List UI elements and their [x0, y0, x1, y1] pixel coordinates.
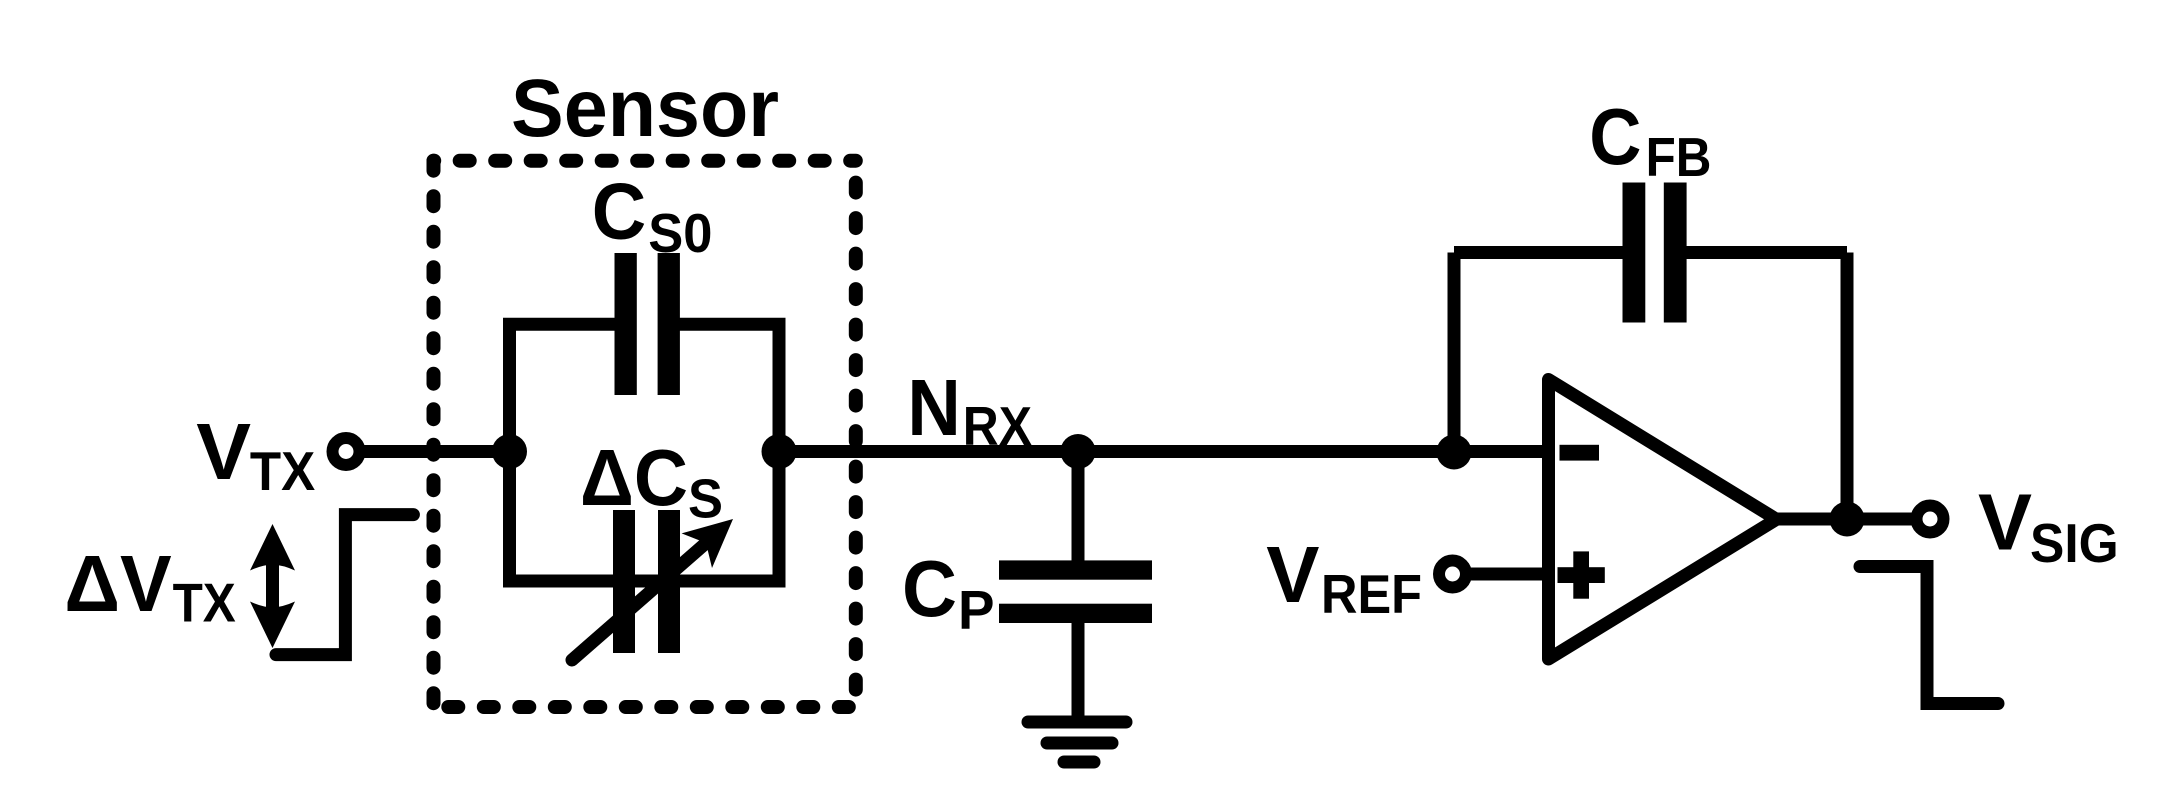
svg-text:N: N: [907, 363, 960, 452]
svg-text:C: C: [592, 166, 647, 255]
terminal VTX: [333, 438, 360, 465]
svg-text:TX: TX: [250, 440, 316, 502]
capacitor CFB: [1623, 183, 1687, 323]
svg-text:V: V: [1978, 478, 2032, 567]
svg-text:V: V: [196, 407, 251, 496]
arrow of variable capacitor: [572, 519, 733, 660]
svg-text:RX: RX: [963, 395, 1032, 457]
svg-text:ΔC: ΔC: [580, 433, 688, 522]
svg-text:FB: FB: [1646, 126, 1712, 188]
capacitor dCS variable: [613, 510, 680, 653]
svg-text:REF: REF: [1321, 563, 1422, 625]
capacitor CS0: [615, 253, 680, 395]
svg-text:S: S: [688, 468, 723, 530]
wire feedback right vertical: [1841, 253, 1854, 520]
waveform rising step dVTX: [276, 515, 413, 655]
node sensor left junction: [492, 434, 527, 469]
wire feedback left vertical: [1448, 253, 1461, 453]
node NRX junction: [1061, 434, 1096, 469]
wire sensor loop right vertical: [773, 324, 786, 581]
ground: [1028, 722, 1126, 762]
svg-text:SIG: SIG: [2030, 512, 2119, 574]
wire VREF to non-inverting input: [1470, 568, 1545, 581]
node sensor right junction: [762, 434, 797, 469]
terminal VREF: [1439, 561, 1466, 588]
wire sensor loop left vertical: [503, 324, 516, 581]
wire CP lower lead: [1072, 620, 1085, 718]
wire feedback top-right: [1686, 246, 1847, 259]
wire sensor loop top-right lead: [679, 318, 786, 331]
wire op-amp output: [1768, 513, 1912, 526]
wire sensor right node to op-amp inverting input: [773, 445, 1545, 458]
waveform falling step VSIG: [1860, 567, 1998, 704]
capacitor CP: [999, 560, 1152, 623]
svg-text:C: C: [1589, 92, 1641, 181]
wire sensor loop top-left lead: [503, 318, 616, 331]
svg-text:P: P: [958, 579, 995, 641]
wire VTX to sensor left node: [360, 445, 516, 458]
node inverting input junction: [1437, 435, 1472, 470]
svg-text:ΔV: ΔV: [64, 539, 171, 628]
op-amp U1: [1549, 380, 1777, 660]
svg-text:Sensor: Sensor: [511, 63, 779, 154]
svg-text:V: V: [1266, 530, 1319, 619]
node output junction: [1830, 502, 1865, 537]
wire CP upper lead: [1072, 452, 1085, 563]
double arrow dVTX: [250, 524, 295, 648]
terminal VSIG: [1917, 506, 1944, 533]
svg-text:C: C: [902, 544, 957, 633]
svg-text:TX: TX: [173, 572, 236, 634]
wire feedback top-left: [1454, 246, 1624, 259]
svg-text:S0: S0: [648, 202, 712, 264]
sensor dashed box: [434, 161, 856, 707]
wire sensor loop bottom lead: [503, 575, 786, 588]
